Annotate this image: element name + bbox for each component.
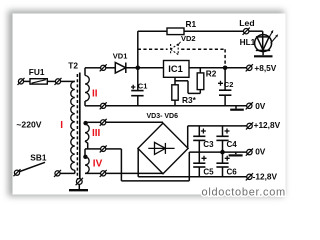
- svg-text:VD3- VD6: VD3- VD6: [147, 113, 179, 120]
- svg-text:HL1: HL1: [240, 37, 256, 47]
- svg-text:C3: C3: [203, 140, 214, 149]
- svg-text:C5: C5: [203, 168, 214, 177]
- svg-text:C1: C1: [138, 82, 148, 91]
- svg-text:R3*: R3*: [182, 95, 197, 105]
- svg-text:SB1: SB1: [30, 152, 47, 162]
- svg-text:R1: R1: [186, 19, 197, 29]
- svg-text:FU1: FU1: [29, 67, 45, 77]
- svg-text:C6: C6: [227, 167, 238, 176]
- svg-text:oldoctober.com: oldoctober.com: [202, 187, 286, 199]
- svg-text:III: III: [92, 128, 101, 139]
- svg-text:Led: Led: [239, 18, 254, 28]
- svg-text:IV: IV: [93, 159, 103, 170]
- svg-text:C4: C4: [227, 140, 238, 149]
- svg-text:I: I: [60, 120, 63, 131]
- svg-text:C2: C2: [224, 80, 234, 89]
- svg-text:+12,8V: +12,8V: [254, 120, 281, 130]
- svg-text:R2: R2: [206, 68, 217, 78]
- svg-text:~220V: ~220V: [16, 120, 41, 130]
- svg-text:II: II: [92, 89, 98, 100]
- svg-text:0V: 0V: [255, 101, 266, 111]
- svg-text:IC1: IC1: [168, 64, 182, 74]
- svg-text:-12,8V: -12,8V: [253, 172, 278, 182]
- svg-text:T2: T2: [68, 60, 78, 70]
- svg-text:VD2: VD2: [181, 34, 196, 43]
- svg-text:VD1: VD1: [113, 51, 128, 60]
- svg-text:+8,5V: +8,5V: [254, 63, 276, 73]
- svg-text:0V: 0V: [255, 147, 266, 157]
